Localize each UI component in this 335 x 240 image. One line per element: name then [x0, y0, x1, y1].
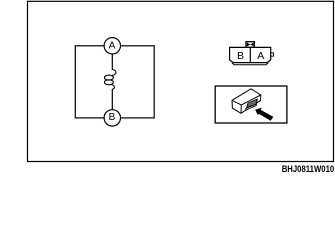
wire (vertical stub from coil down to terminal B)	[111, 89, 113, 111]
svg-text:B: B	[237, 50, 244, 62]
svg-text:A: A	[257, 50, 264, 62]
relay front vertical edge	[240, 105, 242, 113]
connector cavity divider	[249, 47, 251, 62]
relay top-face front edge	[232, 95, 261, 105]
component location box	[215, 86, 287, 123]
svg-text:B: B	[109, 112, 116, 123]
relay pin connector block	[247, 99, 258, 108]
pointer arrow (filled)	[255, 108, 273, 121]
wire (vertical stub from terminal A down to coil)	[111, 53, 113, 70]
pin block hatch lines	[247, 101, 257, 108]
circuit loop rectangle	[75, 46, 154, 118]
latch bowtie left triangle	[247, 43, 250, 47]
latch bowtie right triangle	[250, 43, 253, 47]
relay pin connector block lower lip	[246, 104, 257, 110]
connector body (top-right, terminal view)	[230, 47, 271, 62]
relay body (isometric outline)	[232, 89, 261, 114]
terminal A (circle)	[104, 38, 120, 54]
svg-text:A: A	[109, 41, 116, 52]
connector bottom lip	[232, 63, 268, 65]
connector side tab (right)	[271, 53, 274, 56]
terminal B (circle)	[104, 110, 120, 126]
svg-text:BHJ0811W010: BHJ0811W010	[282, 164, 335, 175]
connector latch tab (top)	[246, 42, 254, 48]
outer frame	[28, 1, 334, 161]
coil L1 (solenoid winding)	[104, 70, 116, 90]
